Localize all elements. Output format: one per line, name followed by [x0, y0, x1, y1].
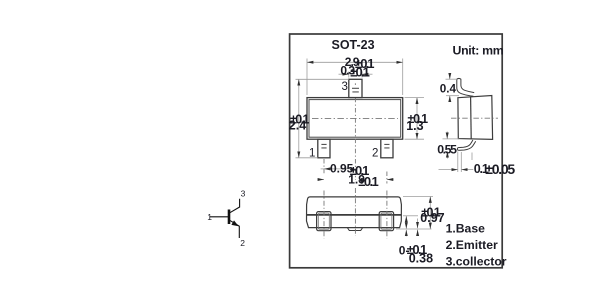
dimension 0.4 arrows: [449, 74, 451, 80]
front view body: [307, 197, 402, 228]
top view body inner line: [309, 100, 401, 138]
front view ext line top: [403, 196, 433, 198]
standoff dimension arrows: [417, 219, 419, 229]
svg-text:3: 3: [241, 189, 246, 199]
svg-text:Unit: mm: Unit: mm: [453, 43, 504, 57]
front view centerline pin1: [323, 191, 325, 239]
extension lines for 2.4 dim: [296, 78, 349, 80]
dimension 0.38 line: [405, 216, 407, 229]
svg-text:0.4: 0.4: [440, 82, 457, 95]
front view pin3 tab: [347, 228, 362, 231]
svg-text:±0.05: ±0.05: [485, 161, 515, 177]
emitter arrowhead: [231, 220, 238, 226]
dimension 0.1±0.05 line: [439, 169, 458, 171]
extension lines for 2.9 dim: [306, 59, 308, 96]
svg-text:3: 3: [342, 81, 348, 93]
pin 2 centerline dashes: [384, 144, 389, 148]
front view pin 2 lead inner lines: [381, 213, 392, 229]
dimension 0.55 lower arrow: [446, 151, 448, 158]
ext lines for 0.1 dim: [457, 152, 459, 173]
ext lines for 0.4 dim: [446, 78, 458, 80]
side view inner edge: [470, 97, 473, 139]
pin 3 centerline dashes: [352, 88, 359, 92]
dimension 1.3±0.1 line: [416, 98, 418, 140]
horizontal centerline of body: [312, 117, 398, 119]
side view body: [458, 96, 493, 140]
pin 3 lead (top): [349, 79, 362, 97]
svg-text:1.Base: 1.Base: [446, 222, 486, 236]
svg-text:3.collector: 3.collector: [446, 254, 507, 268]
front view pin 1 lead inner lines: [318, 213, 329, 229]
pin2 center extension dashes: [386, 172, 388, 184]
front view pin 2 lead: [379, 212, 393, 231]
side view top gull-wing lead: [457, 79, 474, 96]
pin1 center extension dashes: [323, 159, 325, 174]
svg-text:2: 2: [240, 238, 245, 248]
dimension 2.9±0.1 line: [307, 61, 403, 63]
svg-text:0.38: 0.38: [409, 251, 433, 265]
dimension 0.3±0.1 line (pin3 width): [339, 73, 349, 75]
pin 1 centerline dashes: [321, 144, 326, 148]
front view parting line: [306, 214, 401, 216]
pin 3 centerline dot: [354, 83, 356, 84]
base wire pin 1: [210, 216, 228, 218]
svg-text:1: 1: [207, 212, 212, 222]
dimension 0.55 line: [446, 132, 448, 139]
svg-text:0.97: 0.97: [420, 211, 444, 225]
dimension 0.97±0.1 line: [429, 197, 431, 230]
dimension 1.9±0.1 line: [318, 179, 325, 181]
svg-text:2: 2: [372, 148, 378, 160]
svg-text:±0.1: ±0.1: [358, 174, 378, 189]
ext lines for 0.3 dim: [348, 72, 350, 78]
svg-text:SOT-23: SOT-23: [332, 38, 375, 52]
ext line body bottom for 0.55: [443, 138, 460, 140]
border frame (decorative): [290, 34, 503, 268]
front view ext line parting: [403, 215, 418, 217]
vertical centerline through pin 3: [354, 98, 356, 180]
svg-text:2.4: 2.4: [289, 119, 306, 133]
extension lines for 1.3 dim: [405, 97, 425, 99]
svg-text:2.Emitter: 2.Emitter: [446, 238, 498, 252]
front view centerline pin2: [386, 191, 388, 239]
front view ext line seating: [396, 228, 432, 230]
pin 2 lead (bottom right): [381, 139, 393, 158]
transistor Q1 bar: [228, 210, 231, 225]
svg-text:1.3: 1.3: [406, 119, 423, 133]
front view centerline middle: [354, 188, 356, 236]
side view centerline: [451, 117, 498, 119]
front view pin 1 lead: [317, 212, 331, 231]
emitter wire: [230, 220, 240, 238]
top view body outer: [307, 98, 403, 140]
svg-text:±0.1: ±0.1: [350, 64, 369, 79]
svg-text:0.55: 0.55: [437, 142, 457, 156]
pin 1 lead (bottom left): [318, 139, 330, 158]
collector wire: [230, 199, 240, 213]
dimension 2.4±0.1 line: [298, 79, 300, 158]
side view bottom gull-wing lead: [458, 140, 473, 148]
dimension 0.95±0.1 line: [324, 168, 355, 170]
